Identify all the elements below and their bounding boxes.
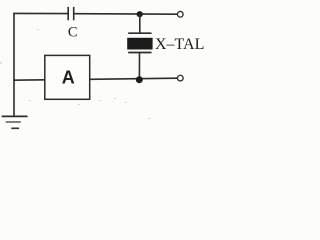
wire: left vertical rail bbox=[13, 13, 15, 116]
svg-text:A: A bbox=[62, 67, 75, 87]
terminal: bottom output (open circle) bbox=[177, 75, 183, 81]
terminal: top output (open circle) bbox=[177, 11, 183, 17]
amplifier A (box) bbox=[45, 55, 90, 99]
wire: crystal top lead bbox=[139, 14, 141, 33]
capacitor C bbox=[68, 7, 74, 20]
ground bbox=[2, 116, 28, 128]
crystal X-TAL bbox=[127, 33, 152, 52]
wire: crystal bottom lead bbox=[138, 53, 140, 80]
node: top junction bbox=[137, 11, 143, 17]
wire: top rail left segment bbox=[13, 12, 68, 14]
svg-text:X–TAL: X–TAL bbox=[155, 36, 204, 53]
wire: bottom rail left segment bbox=[13, 79, 45, 81]
svg-text:C: C bbox=[68, 24, 78, 40]
wire: bottom rail right segment bbox=[90, 78, 178, 79]
node: bottom junction bbox=[136, 76, 143, 83]
wire: top rail right segment bbox=[74, 13, 178, 16]
